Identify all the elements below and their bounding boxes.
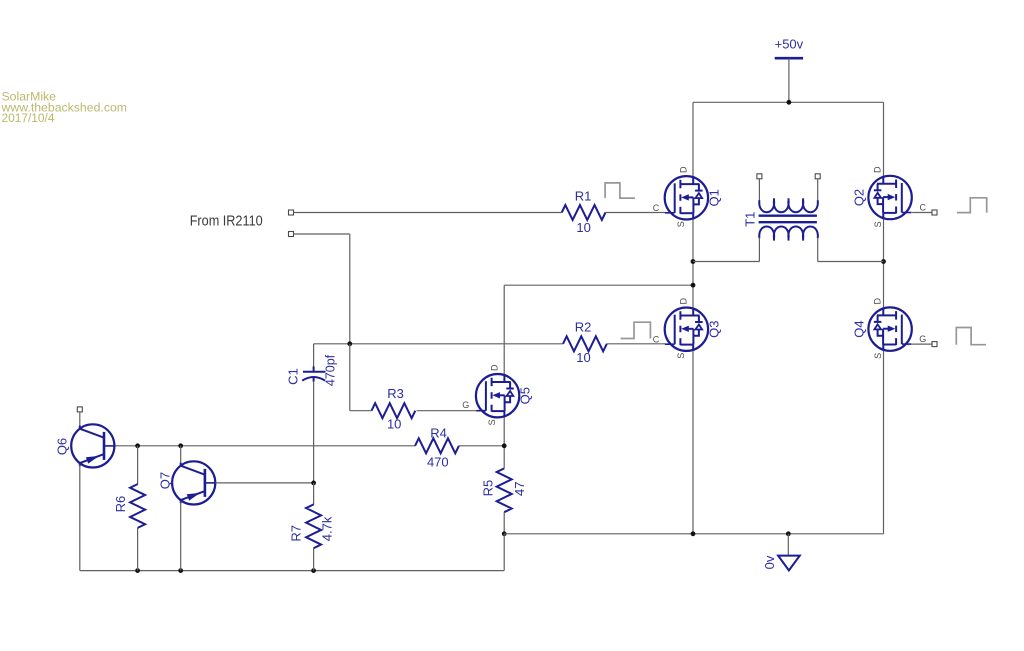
svg-text:D: D [678, 297, 688, 304]
svg-text:10: 10 [576, 350, 590, 365]
mosfet Q5 [476, 374, 519, 417]
wire +50v to top rail [788, 58, 790, 102]
svg-text:10: 10 [387, 417, 401, 432]
input terminal 1 [289, 210, 294, 215]
svg-text:C: C [653, 203, 660, 213]
wire input2 horizontal [294, 233, 350, 235]
junction Q7 collector [178, 443, 183, 448]
svg-text:R4: R4 [430, 426, 447, 441]
svg-text:G: G [919, 334, 926, 344]
resistor R4 [415, 438, 459, 453]
junction input2/gate2 [347, 341, 352, 346]
wire Q4 source down [883, 351, 885, 534]
junction R5 bottom [502, 531, 507, 536]
terminal Q2 gate [932, 210, 937, 215]
svg-text:Q7: Q7 [158, 472, 173, 489]
wire C1 to R2 (gate2 net) [314, 343, 563, 345]
svg-text:S: S [873, 221, 883, 227]
svg-text:R5: R5 [480, 480, 495, 497]
svg-text:Q4: Q4 [851, 320, 866, 337]
svg-text:S: S [487, 419, 497, 425]
svg-text:C: C [919, 203, 926, 213]
resistor R6 [130, 484, 145, 528]
svg-text:R7: R7 [289, 525, 304, 542]
wire R1 to Q1 gate [606, 212, 666, 214]
svg-text:470: 470 [427, 454, 449, 469]
transistor Q6 [71, 424, 114, 467]
resistor R3 [372, 403, 416, 418]
resistor R7 [306, 504, 321, 548]
transformer T1 [757, 174, 820, 262]
svg-text:0v: 0v [762, 555, 777, 569]
svg-text:D: D [490, 364, 500, 371]
top rail wire [693, 101, 884, 103]
wire ground stub [787, 534, 789, 556]
junction Q5 drain net [691, 283, 696, 288]
ground rail wire [504, 533, 883, 535]
wire R5 bottom [503, 512, 505, 534]
waveform pulse at R1 [605, 183, 635, 198]
wire R3 left vertical from junction [349, 344, 351, 411]
wire transformer bottom left [693, 261, 759, 263]
junction Q7 emitter at rail [178, 568, 183, 573]
wire Q6 base to R4 [115, 445, 416, 447]
svg-text:D: D [873, 166, 883, 173]
wire Q5 drain horizontal to Q3 leg [504, 284, 693, 286]
svg-text:R1: R1 [575, 188, 592, 203]
junction transformer right [881, 259, 886, 264]
power +50v bar symbol [775, 57, 803, 60]
wire Q2 drain from rail [883, 102, 885, 176]
svg-text:Q3: Q3 [706, 321, 721, 338]
wire Q6 collector [79, 412, 81, 428]
svg-text:4.7k: 4.7k [320, 516, 335, 541]
svg-text:Q1: Q1 [706, 189, 721, 206]
wire R6 bottom [137, 528, 139, 571]
svg-text:R6: R6 [113, 496, 128, 513]
wire R6 top [137, 446, 139, 485]
mosfet Q3 [665, 308, 708, 351]
junction Q3 source at rail [691, 531, 696, 536]
wire R7 top [313, 483, 315, 505]
mosfet Q2 [868, 176, 911, 219]
wire Q7 emitter down to rail [180, 501, 182, 570]
input terminal 2 [289, 232, 294, 237]
svg-text:C1: C1 [286, 368, 301, 385]
wire C1 to Q7 base node [313, 381, 315, 482]
svg-text:Q2: Q2 [851, 189, 866, 206]
wire input2 vertical [349, 234, 351, 344]
wire Q5 source down [503, 417, 505, 468]
waveform pulse at R2 [621, 322, 651, 338]
svg-text:Q6: Q6 [55, 438, 70, 455]
waveform output Q2 [957, 198, 987, 213]
wire Q2 source to Q4 drain [883, 219, 885, 307]
svg-text:C: C [653, 335, 660, 345]
svg-text:D: D [678, 166, 688, 173]
terminal Q6 collector [77, 407, 82, 412]
resistor R5 [497, 468, 512, 512]
wire Q4 gate to terminal [912, 343, 932, 345]
junction R6 bottom [135, 568, 140, 573]
wire R2 to Q3 gate [607, 343, 665, 345]
wire Q5 gate from R3 [417, 410, 477, 412]
junction R6 top [135, 443, 140, 448]
svg-text:R3: R3 [387, 386, 404, 401]
svg-text:G: G [462, 400, 469, 410]
wire Q7 base to R7 node [216, 482, 314, 484]
capacitor C1 [302, 366, 325, 381]
svg-text:Q5: Q5 [518, 387, 533, 404]
wire rail riser [503, 534, 505, 571]
svg-text:+50v: +50v [775, 36, 804, 51]
wire transformer bottom right [818, 261, 884, 263]
waveform output Q4 [956, 328, 986, 345]
transistor Q7 [172, 461, 215, 504]
svg-text:D: D [873, 297, 883, 304]
junction transformer left [691, 259, 696, 264]
svg-text:47: 47 [512, 482, 527, 496]
junction top rail [787, 100, 792, 105]
wire Q7 collector from R4 line [180, 446, 182, 465]
ground symbol 0v triangle [778, 556, 800, 571]
resistor R1 [562, 205, 606, 220]
svg-text:T1: T1 [743, 212, 758, 227]
wire Q2 gate to terminal [912, 212, 932, 214]
svg-text:From IR2110: From IR2110 [190, 214, 263, 230]
wire Q5 drain vertical [503, 285, 505, 374]
wire Q1 drain from rail [692, 102, 694, 176]
resistor R2 [563, 336, 607, 351]
wire R4 to Q5 source node [459, 445, 504, 447]
svg-text:R2: R2 [575, 320, 592, 335]
mosfet Q4 [868, 307, 911, 350]
junction ground symbol [786, 531, 791, 536]
junction R4 / Q5 source [502, 443, 507, 448]
svg-text:2017/10/4: 2017/10/4 [2, 111, 55, 125]
wire Q3 source down [692, 351, 694, 534]
svg-text:470pf: 470pf [324, 354, 338, 386]
wire gate2 down to C1 [313, 344, 315, 367]
wire Q6 emitter down to rail [79, 464, 81, 570]
svg-text:10: 10 [576, 220, 590, 235]
junction R7 bottom [311, 568, 316, 573]
left ground rail wire [80, 570, 504, 572]
junction Q7 base / C1 / R7 [311, 481, 316, 486]
wire R7 bottom wire [313, 548, 315, 570]
terminal Q4 gate [932, 342, 937, 347]
svg-text:S: S [873, 353, 883, 359]
svg-text:S: S [676, 221, 686, 227]
mosfet Q1 [665, 176, 708, 219]
svg-text:S: S [676, 353, 686, 359]
wire Q1 source to Q3 drain [692, 220, 694, 308]
wire input1 to R1 [294, 212, 562, 214]
